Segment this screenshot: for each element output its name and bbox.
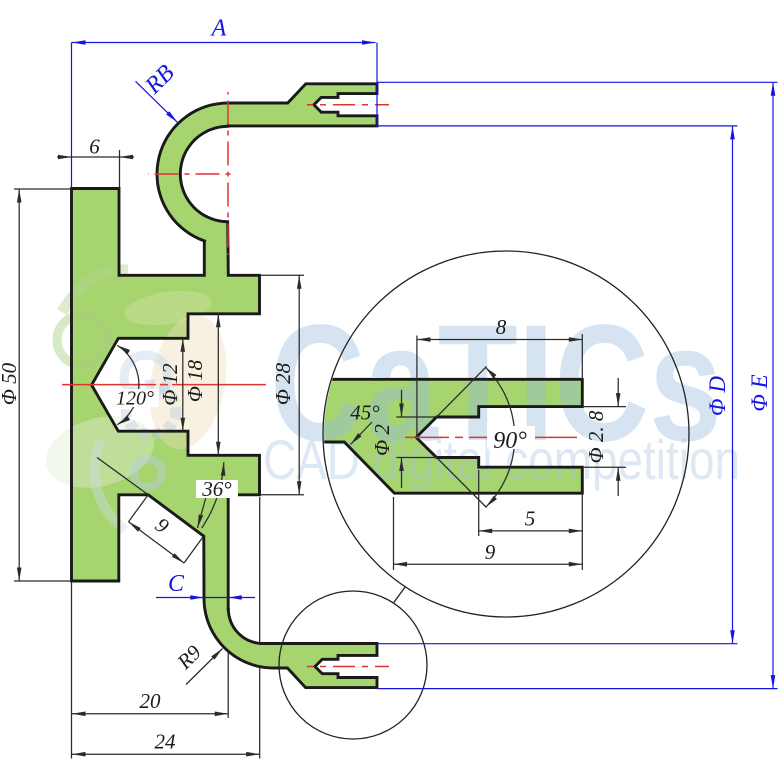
- svg-text:120°: 120°: [116, 388, 154, 410]
- svg-text:Φ 50: Φ 50: [0, 362, 21, 405]
- svg-text:20: 20: [140, 689, 162, 713]
- svg-text:36°: 36°: [201, 477, 232, 501]
- detail dimension 90 deg: [437, 365, 535, 508]
- svg-text:Φ 12: Φ 12: [158, 363, 182, 406]
- main axis centerline: [62, 384, 270, 386]
- small circle around lower tip: [279, 591, 427, 739]
- dimension Phi18: [183, 314, 221, 456]
- svg-text:24: 24: [155, 730, 177, 754]
- detail view centerline: [405, 436, 582, 438]
- dimension 20: [72, 581, 229, 759]
- detail dimension 8: [417, 315, 582, 437]
- svg-text:9: 9: [151, 513, 174, 539]
- dimension A: [72, 16, 378, 189]
- detail circle: [323, 251, 689, 617]
- upper tip centerline: [307, 104, 389, 106]
- upper bend center horizontal centerline: [148, 173, 236, 175]
- svg-text:90°: 90°: [493, 428, 527, 454]
- part cross-section fill (green profile): [72, 84, 378, 688]
- dimension C: [156, 571, 255, 600]
- dimension 9 (slanted chamfer face): [127, 495, 203, 565]
- dimension R9 leader: [172, 640, 225, 685]
- dimension Phi12: [158, 338, 185, 431]
- svg-text:Φ E: Φ E: [747, 374, 772, 411]
- svg-text:8: 8: [496, 315, 507, 339]
- svg-text:Φ 28: Φ 28: [271, 362, 295, 405]
- dimension RB leader: [136, 60, 180, 124]
- svg-text:C: C: [168, 571, 185, 597]
- upper bend center vertical centerline: [227, 92, 229, 255]
- detail dimension 5: [479, 470, 583, 570]
- detail dimension 45 deg leader: [349, 401, 380, 447]
- connector line between circles: [394, 587, 406, 603]
- svg-text:Φ D: Φ D: [705, 376, 730, 416]
- dimension PhiE: [377, 82, 778, 688]
- dimension Phi28: [260, 275, 304, 495]
- svg-text:9: 9: [485, 540, 496, 564]
- lower tip centerline: [307, 666, 389, 668]
- svg-text:Φ 2. 8: Φ 2. 8: [584, 410, 608, 463]
- svg-text:6: 6: [89, 135, 100, 159]
- svg-text:5: 5: [525, 507, 536, 531]
- svg-text:Φ 18: Φ 18: [183, 359, 207, 402]
- svg-text:A: A: [210, 16, 227, 42]
- svg-text:RB: RB: [140, 60, 180, 100]
- svg-text:45°: 45°: [350, 401, 380, 425]
- dimension 120 deg: [112, 343, 159, 426]
- dimension 6: [57, 135, 134, 189]
- dimension 24: [72, 497, 260, 759]
- svg-text:Φ 2: Φ 2: [370, 424, 394, 456]
- detail dimension Phi2: [370, 390, 437, 488]
- part cross-section outline: [72, 84, 378, 688]
- detail dimension Phi2.8: [582, 378, 626, 496]
- watermark logo: [38, 270, 236, 530]
- detail view outline: [322, 379, 582, 493]
- dimension 36 deg: [97, 458, 238, 529]
- detail dimension 9: [394, 497, 583, 570]
- dimension Phi50: [0, 189, 72, 581]
- dimension PhiD: [377, 126, 738, 644]
